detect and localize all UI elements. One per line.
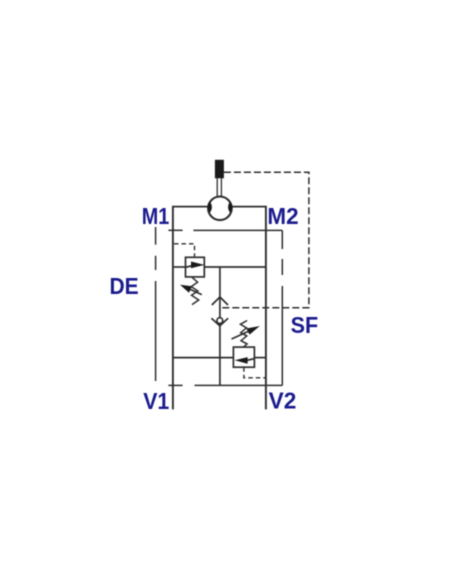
relief valve RV1 spring (191, 277, 199, 304)
svg-text:DE: DE (110, 273, 139, 299)
relief valve RV2 adjustment arrow (232, 332, 249, 340)
relief valve RV2 line (right stub) (254, 357, 266, 359)
motor shaft double line (216, 178, 218, 196)
motor displacement leaf left (208, 202, 212, 213)
svg-text:SF: SF (291, 312, 319, 338)
relief valve RV1 adjustment arrow (191, 290, 202, 295)
hydraulic motor circle (208, 197, 232, 221)
wire pilot dashed from motor shaft to check valve (right loop) (220, 172, 309, 307)
block right border (long-dash segments) (281, 230, 283, 249)
relief valve RV2 body (233, 347, 254, 367)
block top border (193, 229, 282, 231)
wire left vertical M1-V1 (172, 206, 174, 410)
relief valve RV1 flow arrow (points right) (186, 266, 193, 268)
block left border dashed (long-dash segments) (155, 227, 157, 245)
svg-text:V2: V2 (269, 388, 297, 414)
motor shaft end (black rectangle) (215, 160, 224, 179)
svg-text:V1: V1 (143, 388, 169, 414)
check valve seat (211, 318, 228, 326)
relief valve RV1 pilot dashed line (174, 244, 195, 257)
motor port line M1-M2 (173, 206, 266, 208)
port tick M1 on top border (168, 229, 182, 231)
block bottom border (195, 384, 283, 386)
relief valve RV1 body (186, 257, 205, 277)
svg-text:M2: M2 (267, 203, 298, 229)
svg-text:M1: M1 (142, 203, 170, 229)
check valve chevron (flow up) (212, 297, 228, 305)
relief valve RV2 pilot dashed line (244, 367, 266, 378)
relief valve RV2 line (left stub) (173, 357, 234, 359)
relief valve RV1 line (left stub) (173, 266, 186, 268)
port tick V1 on bottom border (168, 384, 182, 386)
wire right vertical M2-V2 (265, 206, 267, 410)
motor displacement leaf right (228, 202, 232, 213)
check valve ball (217, 318, 223, 324)
relief valve RV2 spring (240, 321, 247, 348)
check valve vertical wire (219, 267, 221, 385)
relief valve RV1 line (right stub to M2 line) (204, 266, 266, 268)
relief valve RV2 flow arrow (points left) (247, 359, 254, 360)
